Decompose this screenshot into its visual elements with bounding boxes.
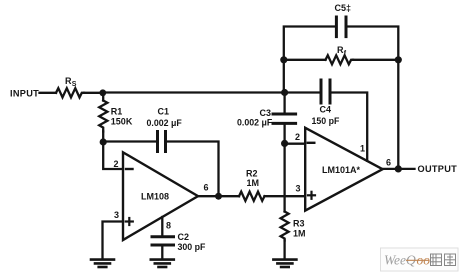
node LM108 output junction [215, 193, 222, 200]
node pin2 (LM101A) junction [281, 140, 288, 147]
op-amp U1 LM108 [123, 152, 198, 240]
wire summing node down C3 to pin2 node and R3 [283, 93, 285, 114]
wire LM108 output to R2 [198, 195, 239, 197]
wire R2 to pin 3 (LM101A) [265, 195, 306, 197]
watermark CJK glyph blocks [431, 254, 456, 266]
ground (R3) [273, 260, 296, 267]
resistor Rf [284, 45, 399, 64]
node feedback left junction [280, 56, 287, 63]
svg-text:0.002 μF: 0.002 μF [237, 118, 273, 128]
svg-text:1M: 1M [247, 178, 260, 188]
wire node A to summing node S [103, 91, 285, 93]
wire node B down to pin 2 [103, 142, 123, 169]
svg-text:R1: R1 [111, 107, 123, 117]
svg-text:INPUT: INPUT [10, 89, 39, 99]
wire pin2 node to pin 2 (LM101A) [285, 143, 306, 145]
wire pin 8 stub [161, 217, 163, 236]
svg-text:C4: C4 [320, 105, 332, 115]
wire input lead [40, 92, 57, 94]
wire C3 to pin2 node [283, 125, 285, 144]
wire RS to node A [84, 92, 103, 94]
wire node B to C1 [103, 140, 156, 142]
wire C5 to right junction [348, 27, 399, 60]
capacitor C5 [335, 3, 352, 37]
wire pin2 node down to R3 [283, 143, 285, 211]
op-amp U2 LM101A [305, 128, 382, 211]
svg-text:8: 8 [166, 221, 171, 231]
svg-text:C3: C3 [260, 108, 272, 118]
svg-text:C5‡: C5‡ [335, 3, 352, 13]
watermark WeeQoo box [381, 248, 459, 271]
svg-text:C2: C2 [178, 232, 190, 242]
wire C2 to ground [161, 246, 163, 258]
wire C1 to LM108 output (feedback) [167, 142, 219, 197]
ground (C2) [151, 260, 174, 267]
wire feedback riser (summing node up) [283, 60, 285, 93]
svg-text:150 pF: 150 pF [312, 116, 340, 126]
svg-text:S: S [72, 81, 77, 88]
svg-text:6: 6 [386, 157, 391, 167]
svg-text:2: 2 [295, 132, 300, 142]
resistor RS [56, 76, 84, 97]
svg-text:3: 3 [295, 183, 300, 193]
node summing junction [281, 89, 288, 96]
node A junction [99, 89, 106, 96]
resistor R3 [281, 212, 306, 259]
svg-text:LM101A*: LM101A* [322, 165, 361, 175]
capacitor C1 [147, 107, 183, 152]
svg-text:3: 3 [114, 210, 119, 220]
svg-text:2: 2 [113, 159, 118, 169]
wire left junction up to C5 level [284, 27, 335, 60]
resistor R1 [99, 93, 133, 142]
svg-text:150K: 150K [111, 117, 133, 127]
node output junction [395, 165, 402, 172]
svg-text:1M: 1M [293, 229, 306, 239]
ground (LM108 pin 3) [91, 260, 114, 267]
wire C4 to pin 1 stub [332, 93, 368, 161]
svg-text:LM108: LM108 [141, 191, 169, 201]
wire summing node to C4 [285, 91, 320, 93]
svg-text:1: 1 [360, 144, 365, 154]
svg-text:C1: C1 [158, 107, 170, 117]
node B junction [100, 138, 107, 145]
wire right junction down to output node [397, 60, 399, 169]
svg-text:R3: R3 [293, 219, 305, 229]
capacitor C4 [312, 80, 340, 126]
resistor R2 [239, 169, 265, 201]
svg-text:300 pF: 300 pF [178, 242, 206, 252]
capacitor C3 [237, 108, 296, 128]
svg-text:6: 6 [203, 182, 208, 192]
svg-text:0.002 μF: 0.002 μF [147, 118, 183, 128]
capacitor C2 [152, 232, 206, 252]
svg-text:R2: R2 [246, 169, 258, 179]
wire LM101A output [383, 168, 415, 170]
wire pin 3 to ground [103, 222, 124, 259]
svg-text:OUTPUT: OUTPUT [418, 164, 458, 174]
node feedback right junction [395, 56, 402, 63]
